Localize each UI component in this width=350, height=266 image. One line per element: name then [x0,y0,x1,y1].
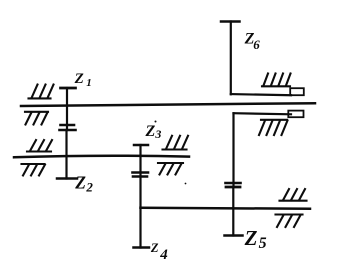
shaft II [14,156,189,158]
upper sleeve bearing box [290,88,304,95]
svg-text:2: 2 [85,179,93,194]
bearing shaft I left upper pad [29,85,54,99]
bearing shaft II right upper pad [163,136,189,150]
gear z4 (stem and bottom T-bar on shaft III) [134,177,150,248]
frame support upper (hatch above) [262,74,291,87]
mesh sleeve-gear with z5 (two bars) [226,183,241,187]
bearing shaft III right lower pad [276,215,303,228]
bearing shaft II left lower pad [22,164,46,176]
speckle below shaft II right bearing [185,183,187,185]
svg-text:Z: Z [74,71,84,87]
gear z1 (T-bar and stem on shaft I) [61,88,76,130]
svg-text:4: 4 [159,247,168,263]
upper sleeve arm (hollow shaft of z6 on shaft I) [231,94,291,95]
svg-text:Z: Z [244,226,258,250]
shaft III [141,208,311,209]
svg-text:1: 1 [86,77,92,89]
mesh z3-z4 (two bars) [133,173,149,177]
gear z5 (stem and bottom T-bar on shaft III) [225,187,243,236]
speckle near z3 label [155,121,157,123]
bearing shaft II right lower pad [158,163,183,175]
bearing shaft II left upper pad [27,140,52,152]
shaft I [21,103,315,106]
lower sleeve bearing box [288,111,303,118]
gear z3 (top T-bar and stem on shaft II) [134,145,148,177]
mesh z1-z2 (two bars) [60,125,76,130]
svg-text:5: 5 [259,235,267,252]
svg-text:3: 3 [154,127,161,141]
lower sleeve arm (hollow shaft on shaft I) [234,113,292,114]
svg-text:6: 6 [253,37,260,52]
svg-text:Z: Z [150,241,159,255]
svg-text:Z: Z [74,173,86,193]
gear z6 (top T-bar and stem) [221,22,240,95]
bearing shaft III right upper pad [280,189,307,201]
frame support lower (hatch below) [259,120,288,135]
bearing shaft I left lower pad [25,112,48,125]
sleeve gear stem (hangs from lower sleeve arm, meshes z5) [232,113,234,187]
gear z2 (stem and bottom T-bar on shaft II) [57,130,77,179]
svg-text:Z: Z [145,123,156,140]
